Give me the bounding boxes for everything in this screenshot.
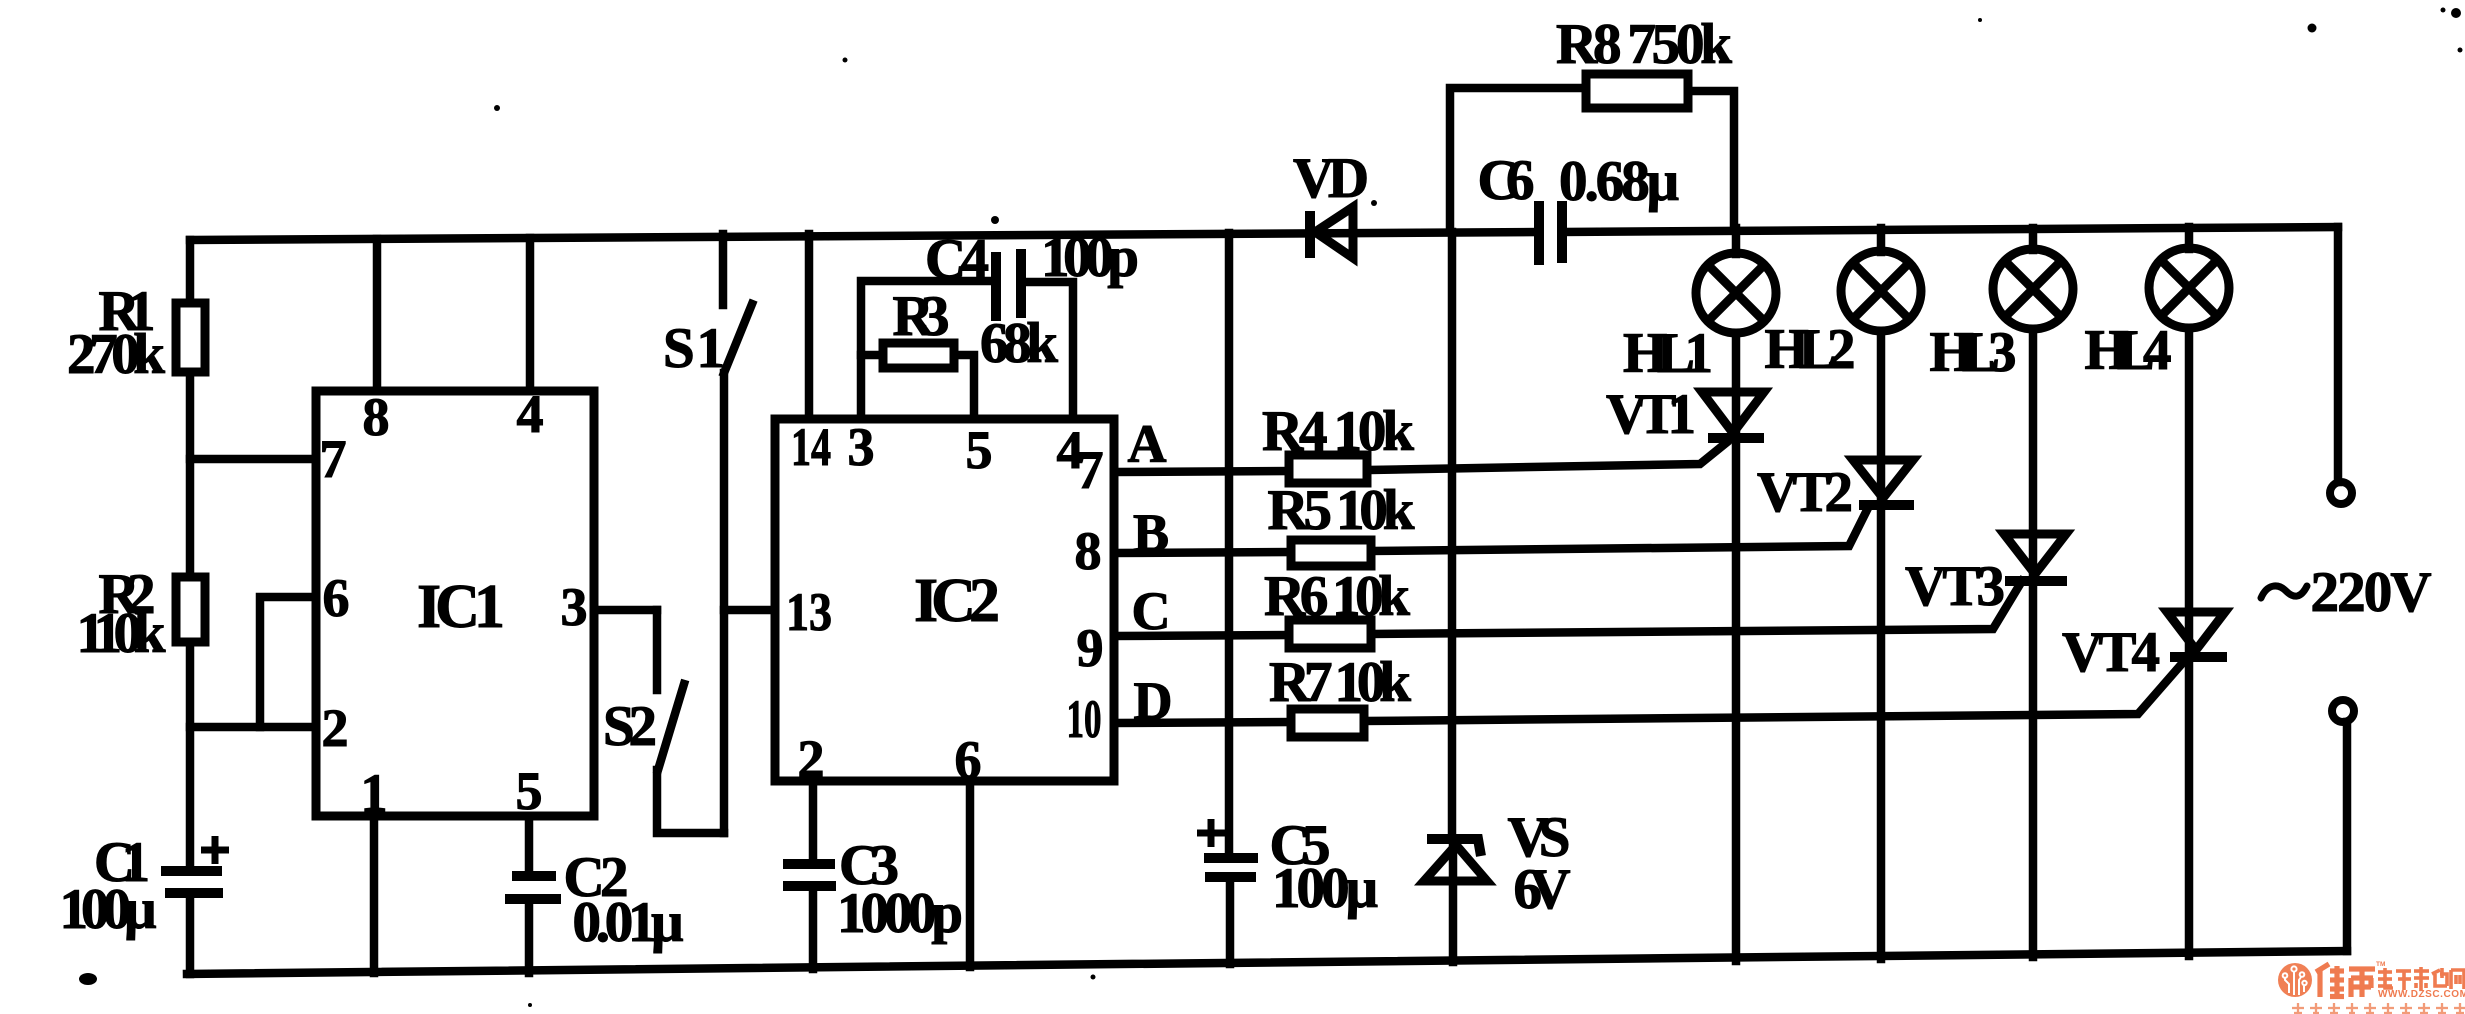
svg-text:R4 10k: R4 10k <box>1262 400 1414 463</box>
svg-text:68k: 68k <box>980 312 1058 375</box>
svg-text:R7 10k: R7 10k <box>1269 651 1411 714</box>
svg-text:HL2: HL2 <box>1765 318 1856 381</box>
svg-text:C4: C4 <box>925 228 989 291</box>
svg-text:IC1: IC1 <box>417 573 505 641</box>
svg-text:6: 6 <box>955 730 982 790</box>
svg-text:0.01μ: 0.01μ <box>573 891 684 954</box>
svg-text:0.68μ: 0.68μ <box>1559 150 1679 213</box>
svg-text:2: 2 <box>322 698 349 758</box>
svg-text:7: 7 <box>1077 440 1104 500</box>
svg-text:7: 7 <box>320 429 347 489</box>
svg-text:100μ: 100μ <box>60 878 157 941</box>
svg-text:5: 5 <box>966 420 993 480</box>
svg-text:A: A <box>1128 414 1167 474</box>
svg-text:3: 3 <box>848 417 875 477</box>
svg-text:8: 8 <box>1075 521 1102 581</box>
svg-text:C6: C6 <box>1478 149 1535 212</box>
svg-text:HL4: HL4 <box>2085 319 2172 382</box>
svg-text:270k: 270k <box>67 323 165 386</box>
svg-text:VD: VD <box>1293 147 1369 210</box>
svg-text:220V: 220V <box>2311 561 2432 624</box>
svg-text:110k: 110k <box>77 602 166 665</box>
svg-text:TM: TM <box>2376 961 2385 968</box>
svg-text:C: C <box>1132 581 1171 641</box>
svg-text:HL1: HL1 <box>1623 322 1713 385</box>
svg-text:B: B <box>1133 503 1169 563</box>
svg-text:10: 10 <box>1067 689 1102 749</box>
svg-text:D: D <box>1134 671 1173 731</box>
svg-text:100p: 100p <box>1041 226 1139 289</box>
svg-text:WWW.DZSC.COM: WWW.DZSC.COM <box>2378 989 2465 1000</box>
svg-text:14: 14 <box>791 417 831 477</box>
svg-text:R8 750k: R8 750k <box>1556 13 1732 76</box>
svg-text:13: 13 <box>786 582 832 642</box>
svg-text:R5 10k: R5 10k <box>1268 479 1415 542</box>
svg-text:IC2: IC2 <box>914 567 1000 635</box>
svg-text:9: 9 <box>1077 618 1104 678</box>
svg-text:VT2: VT2 <box>1757 461 1853 524</box>
svg-text:R6 10k: R6 10k <box>1264 565 1410 628</box>
svg-text:2: 2 <box>798 729 825 789</box>
svg-text:VT1: VT1 <box>1606 383 1696 446</box>
svg-text:VT4: VT4 <box>2062 621 2160 684</box>
svg-text:3: 3 <box>561 577 588 637</box>
svg-text:S1: S1 <box>663 317 725 380</box>
svg-text:6V: 6V <box>1514 858 1571 921</box>
svg-text:S2: S2 <box>603 695 657 758</box>
svg-text:5: 5 <box>516 761 543 821</box>
svg-text:R3: R3 <box>893 285 950 348</box>
svg-text:VT3: VT3 <box>1905 555 2005 618</box>
svg-text:100μ: 100μ <box>1272 857 1378 920</box>
svg-text:1: 1 <box>361 763 388 823</box>
svg-text:6: 6 <box>323 568 350 628</box>
svg-text:8: 8 <box>363 387 390 447</box>
svg-text:4: 4 <box>517 384 544 444</box>
svg-text:1000p: 1000p <box>837 882 963 945</box>
svg-text:HL3: HL3 <box>1930 321 2017 384</box>
